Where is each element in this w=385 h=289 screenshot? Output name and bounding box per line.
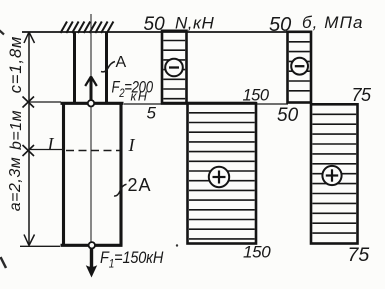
extension line at bottom <box>20 245 60 247</box>
ceiling reference line <box>22 31 288 33</box>
bar segment A (upper narrow bar) <box>75 32 107 104</box>
plus sign in sigma positive area <box>322 166 341 185</box>
sigma diagram positive area <box>311 104 358 243</box>
extension line at step <box>29 101 61 103</box>
scan artifact at left edge near ceiling <box>0 30 4 35</box>
fixed support hatching <box>61 22 114 34</box>
step shoulder line <box>61 102 124 105</box>
svg-text:кН: кН <box>131 90 149 104</box>
node at F1 application point <box>89 242 95 248</box>
section line I-I <box>66 150 120 152</box>
extension line at section I-I <box>29 149 63 151</box>
svg-text:A: A <box>116 54 127 71</box>
svg-text:c=1,8м: c=1,8м <box>7 36 25 94</box>
svg-text:б, МПа: б, МПа <box>302 13 364 32</box>
svg-text:2A: 2A <box>128 175 152 195</box>
svg-text:50: 50 <box>277 105 299 126</box>
force F2 arrow <box>85 77 97 102</box>
svg-text:I: I <box>47 134 55 154</box>
svg-text:I: I <box>128 135 136 155</box>
svg-text:a=2,3м: a=2,3м <box>7 157 24 211</box>
N diagram negative area <box>162 31 187 104</box>
step reference line to diagrams <box>124 103 288 105</box>
leader to label A <box>101 62 115 72</box>
minus sign in N negative area <box>165 59 183 77</box>
bar segment 2A (lower wide bar) <box>64 103 122 246</box>
leader to label 2A <box>114 184 127 196</box>
dimension tick b/a <box>23 145 35 156</box>
scan artifact left edge <box>1 257 7 268</box>
dimension line <box>24 32 35 246</box>
force F1 arrow <box>90 248 93 271</box>
plus sign in N positive area <box>209 167 229 187</box>
svg-text:5: 5 <box>147 104 157 123</box>
svg-text:b=1м: b=1м <box>8 110 25 150</box>
sigma diagram negative area <box>288 32 312 103</box>
bar centerline <box>90 14 92 245</box>
node at F2 application point <box>88 100 94 106</box>
bar bottom edge <box>61 244 123 247</box>
dimension tick c/b <box>23 97 35 108</box>
svg-text:75: 75 <box>352 85 373 105</box>
minus sign in sigma negative area <box>291 58 308 75</box>
thick shared edge at N step <box>161 102 257 105</box>
N diagram positive area <box>188 103 257 243</box>
svg-text:75: 75 <box>348 244 370 266</box>
svg-text:150: 150 <box>243 243 271 262</box>
scan artifact small dot <box>176 244 178 246</box>
